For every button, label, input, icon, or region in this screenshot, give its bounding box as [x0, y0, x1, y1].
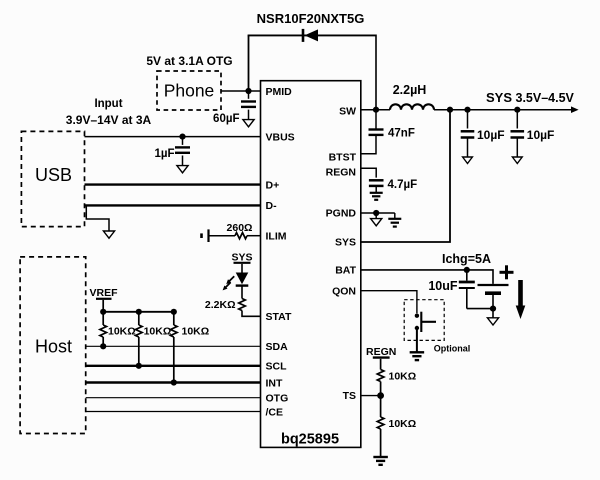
svg-text:10µF: 10µF: [477, 128, 505, 142]
wire VREF stub: [102, 300, 104, 312]
arrow SYS rail: [571, 106, 579, 113]
ground under first 10uF: [463, 157, 473, 164]
svg-text:2.2KΩ: 2.2KΩ: [205, 299, 236, 311]
wire battery bottom: [467, 308, 493, 310]
wire R1 to SDA: [102, 337, 104, 346]
Host box: [20, 257, 86, 434]
wire diode-to-SW vertical: [375, 35, 377, 110]
svg-text:10KΩ: 10KΩ: [389, 371, 417, 383]
svg-text:SW: SW: [339, 106, 356, 118]
wire INT: [86, 381, 261, 383]
svg-text:BTST: BTST: [329, 151, 357, 163]
svg-text:SDA: SDA: [266, 341, 289, 353]
svg-text:Ichg=5A: Ichg=5A: [442, 252, 491, 266]
capacitor 4.7uF: [369, 179, 384, 182]
svg-text:STAT: STAT: [266, 311, 292, 323]
resistor 260ohm: [235, 233, 247, 239]
capacitor 10uF first: [467, 110, 469, 129]
capacitor 10uF battery: [466, 270, 468, 281]
svg-text:PGND: PGND: [326, 208, 357, 220]
svg-text:10KΩ: 10KΩ: [182, 325, 210, 337]
svg-text:Host: Host: [35, 336, 72, 356]
wire pull-up bus: [103, 311, 174, 313]
wire VBUS: [85, 136, 261, 138]
capacitor 10uF second: [516, 110, 518, 129]
wire R5 to gnd: [380, 429, 382, 457]
svg-text:bq25895: bq25895: [281, 431, 339, 447]
node SDA junction: [100, 343, 106, 349]
node INT junction: [171, 379, 177, 385]
ground under 4.7uF: [370, 192, 383, 194]
arrow Ichg current: [518, 280, 523, 307]
wire USB shield: [86, 205, 109, 231]
node bus 2: [136, 309, 142, 315]
Optional box: [404, 300, 444, 341]
label battery plus: [500, 271, 514, 274]
wire SW rail left: [361, 109, 390, 111]
wire ILIM left: [209, 235, 236, 237]
wire SYS to LED: [241, 264, 243, 273]
wire TS pin: [361, 395, 381, 397]
svg-text:VBUS: VBUS: [266, 131, 295, 143]
wire PMID-to-diode vertical: [248, 35, 250, 91]
svg-text:PMID: PMID: [266, 86, 293, 98]
wire SCL: [86, 365, 261, 367]
wire diode top horizontal: [248, 34, 376, 36]
svg-text:Phone: Phone: [164, 81, 215, 101]
svg-text:REGN: REGN: [366, 346, 396, 358]
resistor 2.2Kohm: [239, 299, 246, 311]
wire OTG: [86, 397, 261, 399]
svg-text:/CE: /CE: [266, 406, 284, 418]
node TS junction: [377, 392, 384, 399]
wire QON: [361, 291, 417, 314]
resistor R3 10Kohm: [171, 325, 178, 337]
wire REGN: [361, 168, 376, 177]
svg-text:1µF: 1µF: [154, 148, 174, 160]
node rail junction B: [464, 107, 470, 113]
svg-text:D-: D-: [266, 200, 278, 212]
ground under second 10uF: [512, 157, 522, 164]
svg-text:SCL: SCL: [266, 361, 288, 373]
op-amp U1 bq25895 body: [261, 81, 361, 448]
svg-text:10uF: 10uF: [428, 279, 458, 293]
svg-text:60µF: 60µF: [213, 113, 239, 125]
wire R4 to TS: [380, 382, 382, 396]
wire button to gnd: [416, 330, 418, 353]
battery BT1: [478, 284, 509, 286]
svg-text:2.2µH: 2.2µH: [393, 83, 427, 97]
svg-text:QON: QON: [332, 285, 356, 297]
svg-text:4.7µF: 4.7µF: [388, 179, 418, 191]
LED light arrows: [228, 276, 234, 282]
wire BAT: [361, 270, 493, 284]
ground under TS divider: [373, 456, 388, 458]
wire R2 to SCL: [138, 337, 140, 366]
wire D-: [85, 204, 261, 206]
svg-text:REGN: REGN: [326, 166, 356, 178]
wire SYS pin to rail: [361, 110, 450, 242]
resistor R4 10Kohm: [377, 370, 384, 382]
svg-text:47nF: 47nF: [388, 127, 415, 139]
node BAT junction: [464, 267, 470, 273]
svg-text:Input: Input: [94, 98, 122, 110]
svg-text:5V at 3.1A OTG: 5V at 3.1A OTG: [146, 54, 232, 68]
wire /CE: [86, 411, 261, 413]
wire SDA: [86, 345, 261, 347]
wire SYS rail: [434, 109, 572, 111]
capacitor 60uF: [248, 93, 250, 99]
wire R3 to INT: [173, 337, 175, 383]
resistor R5 10Kohm: [377, 417, 384, 429]
wire bus to R2: [138, 312, 140, 325]
wire STAT: [242, 311, 261, 317]
node PMID junction: [245, 88, 251, 94]
node rail junction C: [514, 107, 520, 113]
inductor 2.2uH: [390, 104, 434, 109]
svg-text:Optional: Optional: [434, 343, 471, 353]
node rail junction A: [447, 107, 453, 113]
node SW junction: [373, 107, 379, 113]
wire LED to resistor: [241, 286, 243, 299]
svg-text:INT: INT: [266, 377, 284, 389]
ground under 1uF: [177, 166, 188, 173]
ground PGND triangle: [371, 219, 382, 226]
svg-text:SYS: SYS: [335, 237, 356, 249]
node SCL junction: [136, 363, 142, 369]
ground USB shield: [103, 231, 114, 238]
svg-text:OTG: OTG: [266, 393, 289, 405]
svg-text:10KΩ: 10KΩ: [389, 418, 417, 430]
ground ILIM (two-bar): [200, 233, 203, 238]
svg-text:NSR10F20NXT5G: NSR10F20NXT5G: [257, 11, 365, 26]
wire REGN stub: [380, 359, 382, 370]
ground PGND bars: [388, 218, 401, 220]
svg-text:10KΩ: 10KΩ: [144, 325, 172, 337]
resistor R2 10Kohm: [136, 325, 143, 337]
wire TS to R5: [380, 396, 382, 417]
wire PGND right stub: [394, 213, 396, 219]
USB box: [21, 131, 84, 226]
svg-text:ILIM: ILIM: [266, 231, 287, 243]
wire bus to R1: [102, 312, 104, 325]
capacitor 1uF: [182, 138, 184, 145]
node bus 3: [171, 309, 177, 315]
svg-text:TS: TS: [343, 390, 356, 402]
wire D+: [85, 183, 261, 185]
wire Phone to PMID node: [221, 90, 261, 92]
svg-text:D+: D+: [266, 179, 280, 191]
svg-text:BAT: BAT: [335, 265, 356, 277]
pushbutton S1: [415, 314, 419, 318]
LED D2: [236, 273, 249, 285]
svg-text:260Ω: 260Ω: [227, 222, 253, 234]
svg-text:USB: USB: [35, 165, 72, 185]
wire PGND: [361, 212, 395, 214]
svg-text:3.9V–14V at 3A: 3.9V–14V at 3A: [66, 113, 152, 127]
ground under 60uF: [243, 120, 254, 127]
resistor R1 10Kohm: [100, 325, 107, 337]
wire PGND stub down: [375, 213, 377, 219]
wire bus to R3: [173, 312, 175, 325]
wire ILIM right: [247, 235, 261, 237]
node VBUS junction: [179, 134, 185, 140]
node PGND junction: [373, 210, 379, 216]
node battery gnd junction: [490, 306, 496, 312]
svg-text:VREF: VREF: [89, 287, 118, 299]
svg-text:10KΩ: 10KΩ: [108, 325, 136, 337]
svg-text:SYS 3.5V–4.5V: SYS 3.5V–4.5V: [486, 90, 575, 105]
ground under button: [410, 351, 425, 353]
svg-text:10µF: 10µF: [527, 128, 555, 142]
ground under battery: [487, 318, 498, 325]
diode D1 (reverse blocking, cathode left): [305, 29, 319, 41]
wire SW to 47nF: [375, 110, 377, 129]
wire gnd stub: [492, 309, 494, 318]
capacitor 47nF: [369, 128, 384, 130]
Phone box: [157, 71, 221, 110]
node bus 1: [100, 309, 106, 315]
